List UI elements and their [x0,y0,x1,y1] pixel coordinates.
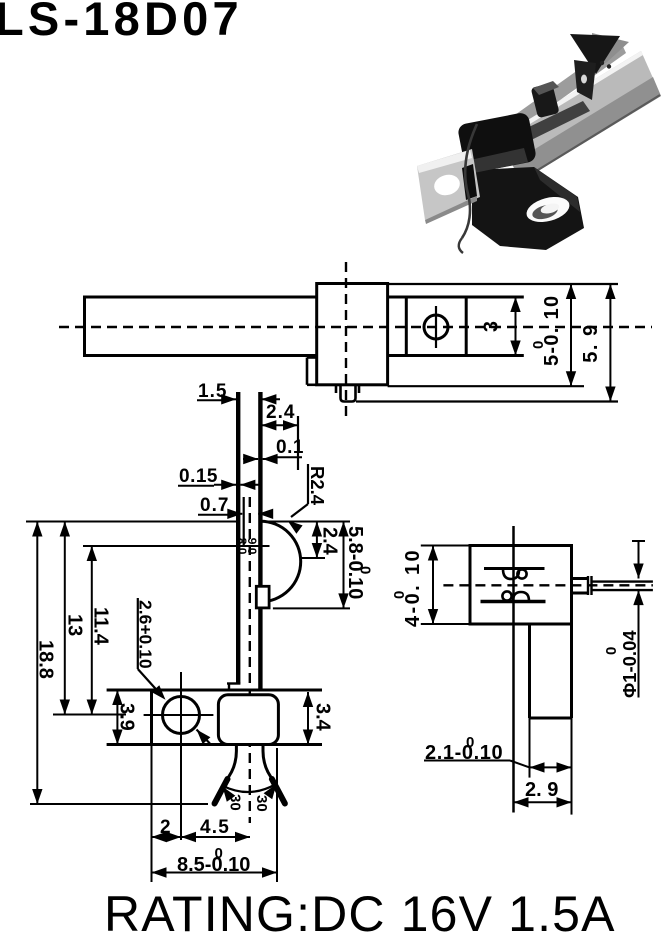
svg-text:30: 30 [253,795,270,812]
dimension 5.8-0.10 [338,522,373,609]
side view inner line upper [484,567,545,570]
inner contact blade line [243,497,245,545]
side view lower leg [530,624,572,718]
svg-text:4.5: 4.5 [200,817,230,838]
top view lever shaft outline [85,296,317,358]
dimension 11.4 [87,546,112,715]
svg-text:5.8-0.10: 5.8-0.10 [344,526,366,599]
svg-text:18.8: 18.8 [35,640,57,679]
dimension 0.1 blade thickness [243,437,304,464]
top view hole circle with crosshair [424,306,448,348]
svg-text:0: 0 [466,734,474,751]
dimension 2.4 bulge upper [312,522,341,559]
right leaf blade (0.1) [258,392,262,690]
dimension 4.5 [181,817,250,842]
svg-text:RATING:DC 16V 1.5A: RATING:DC 16V 1.5A [104,886,616,935]
svg-text:4-0. 10: 4-0. 10 [402,548,424,627]
top view extension line bottom [356,400,618,402]
extension line y546 (11.4 top) [83,545,270,547]
svg-text:0.15: 0.15 [179,466,218,487]
svg-text:0.7: 0.7 [200,495,229,516]
svg-text:2.4: 2.4 [319,527,341,556]
dimension 8.5-0.10 [152,845,278,878]
svg-text:3: 3 [481,321,503,332]
dimension 2.1-0.10 leg width [424,718,572,815]
side view extension top [421,545,470,547]
top view horizontal dashed centerline [59,326,652,328]
svg-text:3.4: 3.4 [312,703,334,732]
dimension 5.9 (top view) [580,284,616,402]
svg-text:2. 9: 2. 9 [525,779,558,801]
svg-text:2: 2 [160,817,171,838]
top view bottom pin tab [336,385,359,402]
dimension 2.9 [514,779,572,808]
dimension 3.9 band height [112,690,137,745]
dimension 13 [60,522,86,715]
front view dashed centerline [249,497,251,823]
extension line from bulge top [260,521,350,523]
dimension 5-0.10 (top view) [530,284,576,386]
svg-text:0: 0 [215,845,223,862]
extension line at flare feet level [30,803,208,805]
svg-text:30: 30 [227,794,244,811]
side view inner line lower [481,600,546,603]
side view extension bottom [421,623,470,625]
top view left step tab [307,358,317,385]
dimension 2.4 (lever top) [261,402,298,470]
fixed contact tab rectangle [256,586,269,608]
mounting hole circle with crosshair [144,672,214,840]
body left edge and extension [150,690,153,745]
svg-text:0.1: 0.1 [276,437,304,458]
svg-text:3.9: 3.9 [116,703,138,731]
dimension 3 (top view height of hole box) [481,297,521,356]
svg-text:13: 13 [64,614,86,636]
svg-text:5. 9: 5. 9 [580,323,602,362]
dimension 4-0.10 side view [391,546,438,628]
svg-text:R2.4: R2.4 [307,466,328,506]
side view terminal pin [572,576,653,595]
extension line blade bottom (5.8) [273,607,350,609]
extension line at hole center level [53,714,126,716]
contact bulge arc R2.4 [260,521,300,602]
radius callout R2.4 [288,464,329,534]
svg-text:11.4: 11.4 [90,607,112,646]
left blade foot step [227,682,240,684]
angle dimension 30 30 [223,784,277,812]
product photo of leaf switch [417,33,661,253]
top view extension line middle [388,385,584,387]
bracket band bottom edge [107,743,322,746]
bracket band top edge [107,689,322,692]
side view front face line [512,526,515,813]
side view dashed centerline [443,584,653,586]
dimension 2 [152,817,182,842]
svg-text:2.4: 2.4 [266,402,295,423]
top view body block outline [317,284,388,385]
dimension 0.15 blade thickness [178,466,262,490]
top view right body and inner box [388,297,524,356]
dimension 0.7 contact gap [198,495,273,519]
svg-text:2.6+0.10: 2.6+0.10 [136,600,156,669]
lever bottom flare with contact feet [215,745,285,804]
extension line bulge middle [301,557,325,559]
top view vertical dashed centerline [345,262,347,419]
svg-text:0: 0 [357,566,374,574]
side view body outline [470,546,572,625]
hole diameter callout 2.6+0.10 [136,598,211,744]
extension line left upper (18.8/13 top) [26,521,238,523]
svg-text:5-0. 10: 5-0. 10 [541,295,563,366]
svg-text:Φ1-0.04: Φ1-0.04 [619,630,640,698]
left leaf blade (0.15) [236,392,240,684]
boss rounded rectangle [218,695,278,745]
svg-text:LS-18D07: LS-18D07 [0,0,243,45]
dimension 18.8 overall height [32,522,56,805]
svg-text:0: 0 [530,341,547,349]
dimension 3.4 boss height [303,692,334,745]
top view extension line top [388,283,618,285]
svg-text:0: 0 [391,591,408,599]
extension line flare right [276,748,278,882]
svg-text:0: 0 [603,647,620,655]
side view crimp detail [502,569,529,601]
dimension phi 1-0.04 pin diameter [603,541,645,698]
dimension 1.5 arrows [221,394,280,404]
